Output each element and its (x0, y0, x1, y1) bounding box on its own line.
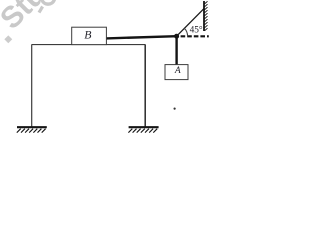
wall line (203, 1, 205, 31)
frame right leg (144, 44, 146, 127)
left ground line (17, 126, 47, 128)
frame left leg (31, 44, 33, 127)
watermark d-bowl fragment (42, 0, 55, 4)
frame top beam (32, 44, 146, 46)
block B box (72, 27, 107, 44)
dashed reference line (181, 35, 209, 37)
hanger wire from node to block A (175, 36, 177, 65)
svg-text:45°: 45° (190, 25, 203, 36)
svg-text:Stu: Stu (0, 0, 52, 36)
block A box (165, 65, 188, 80)
beam from block B to node (106, 36, 177, 38)
right ground hatching (128, 129, 157, 133)
45 degree angle arc (184, 28, 187, 36)
watermark bullet (4, 35, 12, 43)
left ground hatching (17, 129, 46, 133)
stray period dot (174, 108, 176, 110)
node junction dot (174, 34, 179, 39)
wall hatching (205, 1, 208, 31)
svg-text:B: B (84, 28, 91, 42)
watermark stem fragment (39, 7, 43, 13)
right ground line (129, 126, 159, 128)
cable at 45 degrees to wall (177, 9, 204, 37)
svg-text:A: A (174, 66, 181, 76)
